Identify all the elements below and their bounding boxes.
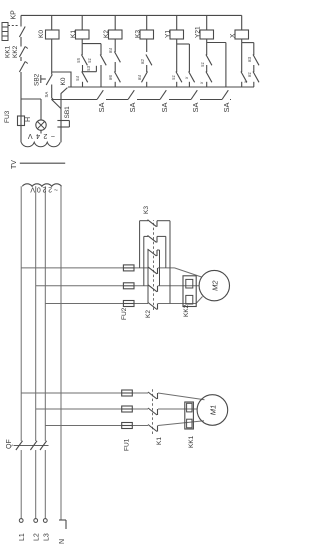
wire Y1 split [177, 43, 190, 45]
contact KK1 NC [19, 62, 25, 73]
svg-text:KK1: KK1 [188, 435, 195, 448]
contact K3 c2 [142, 72, 148, 83]
wire M1 phase2 drop [36, 408, 148, 410]
fuse FU3 [18, 116, 25, 126]
wire KP to rail [20, 15, 22, 26]
svg-text:KK2: KK2 [183, 304, 190, 317]
KK1 heater2 [187, 419, 192, 428]
svg-text:SA: SA [97, 102, 106, 112]
contact K1 branchB c1 [100, 55, 106, 66]
wire K3 to rail [146, 82, 148, 87]
svg-text:54: 54 [75, 76, 80, 81]
wire KK2 to KP [20, 37, 22, 47]
wire Y21 coil left [206, 39, 208, 43]
relay coil K3 [140, 30, 154, 39]
svg-text:K1: K1 [70, 30, 77, 38]
fuse FU1 pole2 [122, 406, 133, 412]
wire L2 below QF [35, 450, 37, 519]
contact Y1 branchA [176, 72, 182, 83]
contact K3 c1 [146, 55, 152, 66]
svg-text:SA: SA [222, 102, 231, 112]
svg-text:K2: K2 [103, 30, 110, 38]
svg-text:SB1: SB1 [64, 106, 71, 119]
contact K1 branchA c1 [81, 55, 87, 66]
transformer TV primary winding ~220V [22, 184, 61, 187]
fuse FU2 pole1 [123, 265, 134, 271]
svg-text:51: 51 [200, 62, 205, 67]
svg-text:N: N [59, 539, 66, 544]
wire N neutral bus [60, 186, 62, 520]
relay coil K0 [46, 30, 60, 39]
wire right rail 24V bus [21, 14, 242, 16]
contactor K1 pole3 [148, 425, 157, 432]
circuit breaker QF [16, 441, 23, 450]
wire K1 branchA to rail [82, 82, 84, 87]
svg-text:SA: SA [128, 102, 137, 112]
contactor K2 pole3 [148, 303, 157, 310]
wire lamp to secondary stub [40, 130, 42, 133]
contact KK2 NC [19, 47, 25, 58]
wire Y21 branchB plain [225, 43, 227, 88]
wire M1 phase3 drop [45, 425, 148, 427]
contact X c2 [253, 72, 259, 83]
svg-text:L1: L1 [19, 533, 26, 541]
K2 K3 linkage dashed [153, 220, 155, 310]
wire Y21 branchA right [206, 43, 208, 56]
terminal N [59, 519, 66, 521]
button SB1 contact [52, 100, 61, 109]
svg-text:55: 55 [76, 58, 81, 63]
svg-text:51: 51 [171, 75, 176, 80]
wire Y1 branchA [176, 44, 178, 72]
contactor K3 loop1 wire1-wire3 [139, 221, 141, 268]
svg-text:SA: SA [160, 102, 169, 112]
button SB2 contact [46, 75, 52, 86]
selector contact SA at 160 [160, 90, 166, 99]
wire Y21 coil to rail [206, 15, 208, 30]
terminal L2 circle [34, 519, 38, 523]
wire to lamp [40, 99, 42, 120]
wire FU3 to KK1 [20, 72, 22, 116]
wire M1 phase1 drop [21, 392, 148, 394]
fuse FU1 pole1 [122, 390, 133, 396]
svg-text:Y21: Y21 [195, 26, 202, 38]
svg-text:M1: M1 [208, 405, 217, 415]
selector contact SA at 97 [97, 90, 103, 99]
K3 contact1 [148, 220, 157, 227]
wire K1 branchA mid [82, 65, 84, 72]
wire X coil left [241, 39, 243, 43]
wire L1 below QF [20, 450, 22, 519]
K3 contact3 [148, 249, 157, 256]
contact KP [19, 27, 25, 38]
wire Y1 coil left [176, 39, 178, 44]
svg-text:FU3: FU3 [4, 110, 11, 123]
svg-text:81: 81 [247, 72, 252, 77]
wire K0 coil to rail [51, 15, 53, 30]
svg-text:KK2: KK2 [12, 45, 19, 58]
svg-text:KP: KP [10, 10, 17, 20]
svg-text:L2: L2 [34, 533, 41, 541]
svg-text:H: H [25, 117, 32, 122]
wire M2 phase3 diagonal into motor [196, 297, 203, 304]
svg-text:53: 53 [86, 66, 91, 71]
wire L2 phase bus [35, 186, 37, 441]
selector contact SA at 128 [128, 90, 134, 99]
wire K2 to rail [114, 82, 116, 87]
wire Y1 branchB [188, 44, 190, 72]
wire L3 below QF [44, 450, 46, 519]
wire K3 mid [146, 65, 148, 72]
svg-text:SA: SA [191, 102, 200, 112]
wire M1 phase1 diagonal into motor [158, 393, 205, 400]
wire X coil to rail [241, 15, 243, 30]
wire SB1 node to K0 hold contact [60, 93, 62, 109]
QF linkage [14, 444, 49, 446]
K1 linkage dashed [152, 387, 154, 434]
svg-text:~220V: ~220V [29, 186, 58, 193]
transformer core [20, 162, 65, 164]
button SB2 actuator [40, 75, 42, 83]
svg-text:K0: K0 [60, 77, 67, 85]
contact X branchA [241, 72, 247, 83]
KP dashed link [8, 25, 19, 27]
wire K3 coil left [146, 39, 148, 52]
wire K3 coil to rail [146, 15, 148, 30]
svg-text:SA: SA [44, 92, 49, 98]
wire X split [242, 42, 254, 44]
button SB1 actuator [57, 126, 69, 128]
terminal L3 circle [43, 519, 47, 523]
wire SB2 to junction [51, 85, 53, 99]
wire secondary to FU3 [20, 126, 22, 143]
contactor K2 pole1 [148, 267, 157, 274]
svg-text:51: 51 [87, 58, 92, 63]
contactor K1 pole1 [148, 392, 157, 399]
contact Y1 branchB [189, 72, 195, 83]
wire X mid [253, 65, 255, 72]
contactor K1 pole2 [148, 408, 157, 415]
fuse FU1 pole3 [122, 423, 133, 429]
contact K2 c2 [114, 72, 120, 83]
wire M2 phase3 drop [45, 303, 148, 305]
thermal relay KK2 box [183, 276, 196, 307]
K3 contact2 [148, 235, 157, 242]
contact Y21 c2 [206, 72, 212, 83]
svg-text:SB2: SB2 [34, 73, 41, 86]
relay coil K2 [109, 30, 123, 39]
wire upper rail [68, 86, 254, 88]
wire SB1 to secondary [60, 109, 62, 143]
wire lamp branch down [21, 98, 41, 100]
wire M2 phase2 drop [36, 285, 148, 287]
wire K1 branchA right [81, 44, 83, 55]
wire junction to lower rail top [52, 98, 53, 99]
contactor K3 loop2 wire2-wire1 [143, 236, 145, 285]
contact Y21 c1 [206, 55, 212, 66]
wire X branchB right [253, 43, 255, 55]
svg-text:86: 86 [108, 75, 113, 80]
wire M2 phase3 lower [158, 303, 196, 305]
relay coil Y21 [200, 30, 214, 39]
svg-text:Y1: Y1 [165, 30, 172, 38]
wire L3 phase bus [44, 186, 46, 441]
svg-text:M2: M2 [210, 280, 219, 291]
KK2 heater2 [186, 295, 193, 304]
contact K1 branchA c2 [82, 72, 88, 83]
svg-text:~24V: ~24V [24, 132, 55, 141]
svg-text:84: 84 [137, 75, 142, 80]
selector contact SA at 191 [191, 90, 197, 99]
contactor K3 loop3 wire3-wire2 [147, 250, 149, 304]
KK1 heater1 [187, 403, 192, 412]
wire K1 merge [82, 71, 96, 73]
wire K1 branchB to rail [100, 65, 102, 87]
svg-text:K3: K3 [143, 206, 150, 214]
relay coil Y1 [170, 30, 184, 39]
wire lower rail with SA gaps [51, 99, 97, 101]
sensor KP element [2, 23, 8, 41]
wire M2 phase1 lower [158, 267, 175, 269]
wire K1 coil to rail [81, 15, 83, 30]
wire M1 phase3 diagonal into motor [158, 421, 204, 426]
wire K2 coil to rail [114, 15, 116, 30]
thermal relay KK1 box [185, 402, 194, 429]
wire Y21 mid [206, 65, 208, 72]
relay coil K1 [76, 30, 90, 39]
wire M2 phase2 into motor [158, 285, 199, 287]
wire M2 phase1 drop [21, 267, 148, 269]
terminal L1 circle [19, 519, 23, 523]
wire L1 phase bus [20, 186, 22, 441]
lamp H circle [36, 120, 46, 130]
svg-text:FU1: FU1 [124, 438, 131, 451]
contact K0 self-hold branch [52, 72, 71, 87]
wire K1 merge jog [95, 66, 97, 72]
wire K1 branchB right [100, 44, 102, 55]
contact X c1 [253, 55, 259, 66]
wire Y21 split [207, 42, 226, 44]
fuse FU2 pole3 [123, 301, 134, 307]
svg-text:FU2: FU2 [121, 307, 128, 320]
svg-text:X: X [230, 33, 237, 38]
svg-text:K0: K0 [38, 30, 45, 38]
fuse FU2 pole2 [123, 283, 134, 289]
contactor K2 pole2 [148, 285, 157, 292]
wire K0 coil to SB2 [51, 39, 53, 75]
svg-text:KK1: KK1 [5, 45, 12, 58]
svg-text:K2: K2 [145, 310, 152, 318]
svg-text:QF: QF [6, 439, 13, 449]
svg-text:TV: TV [11, 160, 18, 169]
svg-text:K1: K1 [156, 437, 163, 445]
wire Y1 coil to rail [176, 15, 178, 30]
svg-text:84: 84 [108, 48, 113, 53]
wire M1 phase2 into motor [158, 408, 197, 410]
wire K1 split [82, 43, 101, 45]
motor M1 circle [197, 395, 228, 426]
motor M2 circle [199, 270, 229, 300]
wire M2 phase1 diagonal into motor [175, 268, 202, 277]
svg-text:L3: L3 [43, 533, 50, 541]
svg-text:K3: K3 [135, 30, 142, 38]
relay coil X [235, 30, 249, 39]
wire K2 mid [114, 62, 116, 72]
svg-text:82: 82 [140, 59, 145, 64]
KK2 heater1 [186, 279, 193, 288]
contact K2 c1 [114, 52, 120, 63]
wire KK1 to KK2 [20, 57, 22, 61]
wire K1 coil left [81, 39, 83, 44]
transformer TV secondary winding ~24V [21, 142, 60, 146]
selector contact SA at 222 [222, 90, 228, 99]
svg-text:83: 83 [247, 57, 252, 62]
wire K2 coil left [114, 39, 116, 52]
wire X branchA [241, 43, 243, 72]
